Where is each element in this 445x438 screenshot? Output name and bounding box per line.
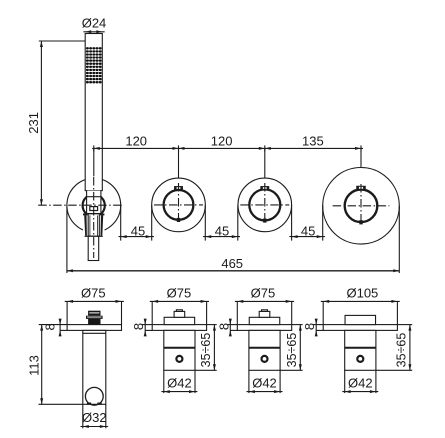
- svg-text:231: 231: [26, 112, 41, 134]
- svg-text:135: 135: [302, 133, 324, 148]
- svg-text:Ø75: Ø75: [167, 285, 192, 300]
- svg-text:35÷65: 35÷65: [394, 333, 408, 368]
- svg-text:35÷65: 35÷65: [285, 333, 299, 368]
- svg-text:Ø32: Ø32: [82, 410, 107, 425]
- svg-text:Ø24: Ø24: [82, 15, 107, 30]
- svg-text:8: 8: [216, 323, 231, 330]
- svg-text:45: 45: [215, 223, 229, 238]
- svg-text:8: 8: [131, 323, 146, 330]
- svg-text:45: 45: [131, 223, 145, 238]
- svg-text:Ø42: Ø42: [252, 376, 277, 391]
- svg-text:Ø75: Ø75: [81, 285, 106, 300]
- svg-text:Ø105: Ø105: [346, 285, 378, 300]
- svg-text:Ø42: Ø42: [167, 376, 192, 391]
- svg-text:35÷65: 35÷65: [199, 333, 213, 368]
- svg-text:8: 8: [302, 323, 317, 330]
- svg-text:113: 113: [26, 355, 41, 376]
- svg-text:120: 120: [125, 133, 147, 148]
- svg-text:120: 120: [211, 133, 233, 148]
- svg-text:Ø42: Ø42: [348, 376, 373, 391]
- svg-text:465: 465: [221, 256, 243, 271]
- svg-text:Ø75: Ø75: [251, 285, 276, 300]
- svg-text:8: 8: [42, 323, 57, 330]
- svg-text:45: 45: [301, 223, 315, 238]
